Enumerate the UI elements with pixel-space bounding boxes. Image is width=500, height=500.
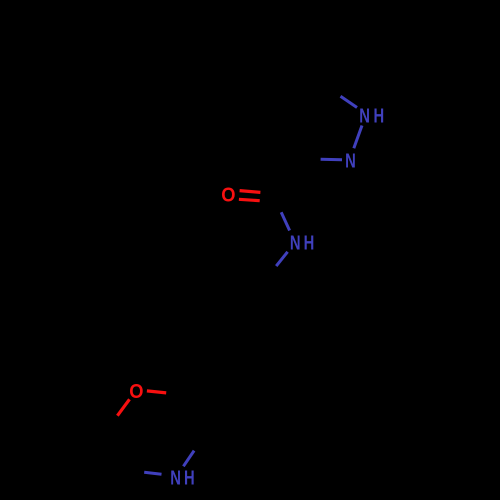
bond C=O carbon halves: [260, 192, 273, 203]
bond C(=O)-N blue half (amide): [281, 212, 289, 230]
morpholine C3-N4 carbon half: [194, 438, 204, 452]
morpholine C5-C6 (carbon colored): [109, 429, 129, 472]
atom O amide carbonyl label: [221, 184, 235, 206]
bond N-CH2a carbon half: [266, 266, 277, 278]
bond C5-C4 (pyrazole, carbon colored): [288, 88, 326, 116]
bond C4-C3 (pyrazole, carbon colored, double): [288, 114, 309, 161]
atom N2 pyrazole N label: [345, 151, 356, 173]
morpholine N4-C5 blue half: [144, 472, 161, 474]
svg-text:O: O: [221, 184, 235, 206]
bond C5-N1 blue half (pyrazole): [341, 96, 358, 107]
chain CH2c-C2 morpholine (carbon colored): [184, 358, 219, 395]
svg-text:N: N: [359, 105, 370, 127]
svg-text:O: O: [129, 381, 143, 403]
morpholine O1-C2 red half: [147, 391, 166, 393]
morpholine O1-C6 red half: [117, 399, 129, 415]
chain CH2b-CH2c (carbon colored): [219, 312, 233, 357]
bond C3-C(=O) carbonyl link (carbon colored): [277, 161, 303, 198]
chain CH2a-CH2b (carbon colored): [233, 278, 266, 312]
atom N amide NH label: [290, 233, 314, 255]
bond N-CH2a blue half (amide N to chain): [276, 252, 287, 266]
morpholine O1-C2 carbon half: [166, 393, 184, 395]
svg-text:H: H: [373, 105, 384, 127]
morpholine N4-C3 blue half: [183, 451, 194, 467]
bond N1-N2 (pyrazole N-N, fully blue): [354, 126, 362, 149]
svg-text:H: H: [184, 468, 195, 490]
bond C(=O)-N amide carbon half: [277, 198, 281, 212]
morpholine N4-C5 carbon half: [128, 472, 144, 473]
atom N1 pyrazole NH label: [359, 105, 384, 127]
svg-text:N: N: [345, 151, 356, 173]
svg-text:H: H: [304, 233, 315, 255]
atom O1 morpholine O label: [129, 381, 143, 403]
bond C=O red halves (double bond): [239, 191, 261, 201]
morpholine C2-C3 (carbon colored): [184, 395, 204, 438]
bond C5-CH3 (methyl, carbon colored, near-invisible): [324, 40, 328, 87]
atom N4 morpholine NH label: [170, 468, 194, 490]
svg-text:N: N: [290, 233, 301, 255]
bond C3-N2 carbon half: [303, 159, 320, 161]
morpholine C6-O1 carbon half: [109, 417, 117, 429]
svg-text:N: N: [170, 468, 181, 490]
bond N2-C3 blue half: [321, 158, 342, 162]
